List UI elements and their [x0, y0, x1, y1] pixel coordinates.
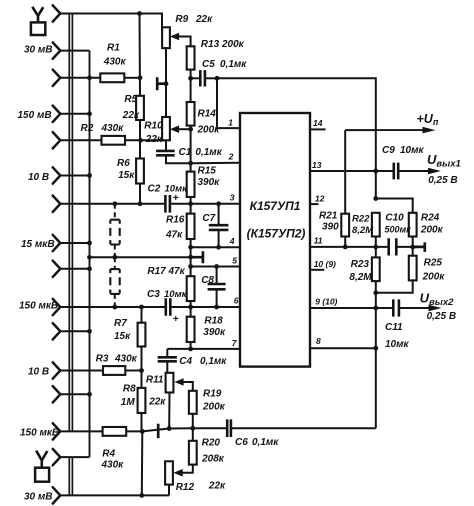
svg-text:R8: R8: [123, 384, 136, 395]
resistor R23 8.2M: [372, 257, 380, 281]
wire bottom row: [60, 494, 169, 496]
svg-text:R12: R12: [176, 482, 195, 493]
wire conn8 to bus: [60, 242, 89, 244]
svg-text:430к: 430к: [103, 57, 127, 68]
resistor R16 47k: [187, 214, 195, 239]
wire pin 1: [217, 78, 240, 128]
node bus conn11: [87, 329, 92, 334]
svg-text:150 мкВ: 150 мкВ: [20, 428, 59, 439]
svg-text:13: 13: [312, 160, 322, 170]
connector input 5: [53, 132, 61, 148]
node R1/R5: [138, 75, 143, 80]
wire R4 to node: [126, 430, 142, 432]
svg-text:430к: 430к: [114, 354, 138, 365]
svg-text:R18: R18: [204, 316, 223, 327]
node dashed divider mid: [112, 255, 117, 260]
output Uout2 arrow: [399, 307, 432, 309]
svg-text:390к: 390к: [198, 177, 221, 188]
wire conn13 to bus: [60, 393, 89, 395]
node R15/C2/pin3: [188, 201, 193, 206]
resistor R1 430k: [100, 73, 124, 82]
wire R21 top lead: [344, 130, 346, 214]
svg-text:14: 14: [313, 118, 323, 128]
wire conn15 to bus: [60, 456, 89, 458]
wiper arrow R9: [170, 33, 179, 41]
svg-text:R5: R5: [124, 94, 137, 105]
svg-text:47к: 47к: [165, 230, 183, 241]
svg-text:R13: R13: [201, 39, 220, 50]
svg-text:10 В: 10 В: [28, 172, 49, 183]
resistor R21 390: [341, 214, 349, 237]
svg-text:R23: R23: [351, 259, 370, 270]
node R18/pin7/C4: [188, 347, 193, 352]
wire R7-R8: [141, 347, 143, 388]
svg-text:R7: R7: [114, 318, 127, 329]
svg-text:11: 11: [314, 235, 323, 245]
capacitor C8: [208, 284, 226, 289]
svg-text:390: 390: [322, 222, 339, 233]
ground chassis bar bottom row: [157, 424, 160, 439]
output Uout1 arrow: [398, 170, 431, 172]
node R3/R7/R8: [139, 368, 144, 373]
node bus conn4: [87, 111, 92, 116]
wire R5 column top: [139, 14, 142, 96]
node C7 top: [216, 201, 221, 206]
resistor R5 22k: [136, 96, 144, 120]
wire R3 to node: [125, 370, 141, 372]
wiper arrow R12: [174, 469, 183, 477]
svg-text:R22: R22: [352, 214, 370, 225]
svg-text:R21: R21: [319, 211, 338, 222]
svg-text:C4: C4: [179, 356, 192, 367]
svg-text:R16: R16: [166, 215, 185, 226]
node pin9/C11: [373, 306, 378, 311]
svg-text:30 мВ: 30 мВ: [24, 45, 53, 56]
output +Up arrow: [376, 129, 426, 131]
wire R18 bottom: [190, 342, 192, 349]
capacitor C7: [209, 225, 229, 230]
svg-text:R11: R11: [146, 374, 164, 385]
node bus mid row: [87, 255, 92, 260]
capacitor C1 0.1uF: [156, 151, 175, 155]
wire R9 wiper to R13: [177, 37, 190, 47]
svg-text:150 мВ: 150 мВ: [18, 110, 52, 121]
resistor R19 200k: [189, 391, 197, 414]
svg-text:22к: 22к: [148, 397, 166, 408]
svg-text:15к: 15к: [118, 170, 135, 181]
wire mid row to ground: [90, 256, 203, 258]
node R11 bottom / ground row: [167, 426, 172, 431]
node ground tap: [164, 81, 169, 86]
node C8 top: [214, 264, 219, 269]
resistor R divider (dashed) 2: [110, 269, 119, 294]
svg-text:C9: C9: [382, 145, 395, 156]
wire pin 2: [191, 162, 240, 164]
wire R14-R15: [190, 126, 192, 172]
wire +Up link: [345, 129, 376, 131]
svg-text:R9: R9: [175, 14, 188, 25]
resistor R22 8.2M: [372, 213, 380, 237]
svg-text:C6: C6: [235, 437, 248, 448]
connector input 8 (15 uV): [53, 235, 61, 251]
svg-text:C2: C2: [148, 183, 161, 194]
svg-text:R6: R6: [117, 158, 130, 169]
svg-text:4: 4: [229, 236, 235, 246]
svg-text:208к: 208к: [201, 454, 225, 465]
node top rail split: [373, 196, 378, 201]
node bus conn8: [87, 241, 92, 246]
svg-text:5: 5: [232, 255, 237, 265]
svg-text:R20: R20: [202, 438, 221, 449]
wire conn14 to R4: [60, 430, 102, 432]
wire C4 to R11: [166, 361, 168, 373]
resistor R15 390k: [187, 172, 195, 197]
svg-text:22к: 22к: [145, 134, 163, 145]
svg-text:200к: 200к: [202, 402, 226, 413]
svg-text:C5: C5: [202, 59, 215, 70]
wire R10 to C1: [165, 140, 167, 151]
node dashed divider top: [112, 201, 117, 206]
connector input 2 (30 mV): [53, 42, 61, 58]
connector input 14 (150 uV): [53, 423, 61, 439]
svg-text:C3: C3: [147, 289, 160, 300]
node mid row: [188, 255, 193, 260]
svg-text:R24: R24: [421, 213, 440, 224]
wire R1 to node: [124, 77, 140, 79]
wire R16-R17: [190, 239, 192, 276]
wire R12 wiper to R20: [181, 465, 193, 473]
wire C1 to R15 node: [166, 155, 191, 163]
svg-text:R17: R17: [147, 266, 166, 277]
wire C7 top lead: [218, 204, 220, 225]
svg-text:R25: R25: [424, 258, 443, 269]
svg-text:1М: 1М: [121, 397, 136, 408]
svg-text:R14: R14: [198, 109, 217, 120]
svg-text:390к: 390к: [203, 327, 226, 338]
node pin8/right rail: [373, 346, 378, 351]
wire C8 bottom lead: [216, 289, 218, 307]
wire dashed lead: [114, 294, 116, 307]
capacitor C4 0.1uF: [158, 357, 177, 361]
svg-text:2: 2: [228, 152, 234, 162]
svg-text:0,1мк: 0,1мк: [220, 59, 247, 70]
svg-text:22к: 22к: [195, 14, 213, 25]
wire conn11 to bus: [60, 330, 89, 332]
svg-text:3: 3: [230, 193, 235, 203]
connector input 7: [53, 196, 61, 212]
resistor R3 430k: [103, 366, 125, 375]
node bus conn13: [87, 392, 92, 397]
resistor R17 47k: [187, 276, 195, 301]
capacitor C3 10uF electrolytic: [166, 298, 171, 316]
svg-text:C8: C8: [201, 275, 214, 286]
node R4/R8 bottom: [140, 429, 145, 434]
connector input 9: [53, 261, 61, 277]
resistor R12 22k potentiometer: [165, 461, 173, 484]
wire conn2 to bus: [60, 50, 89, 52]
svg-text:0,25 В: 0,25 В: [427, 311, 456, 322]
node bus/R1 row: [87, 75, 92, 80]
wire C3 to node: [170, 306, 190, 308]
wire R6 to C2 row: [139, 184, 141, 204]
wire R19-R20: [192, 414, 194, 441]
wiper arrow R10: [170, 125, 179, 133]
bus vertical wire: [89, 51, 91, 458]
resistor R6 15k: [136, 159, 144, 184]
svg-text:8,2М: 8,2М: [349, 272, 372, 283]
node bus conn9: [87, 266, 92, 271]
resistor R9 22k potentiometer: [162, 27, 170, 48]
wire R24-R25: [412, 237, 414, 256]
svg-text:R15: R15: [198, 166, 217, 177]
svg-text:10 В: 10 В: [28, 367, 49, 378]
resistor R4 430k: [103, 427, 127, 436]
svg-text:15 мкВ: 15 мкВ: [21, 239, 55, 250]
svg-text:430к: 430к: [101, 123, 125, 134]
wire conn4 to bus: [60, 113, 89, 115]
svg-text:+: +: [173, 192, 179, 204]
svg-text:10мк: 10мк: [164, 289, 188, 300]
capacitor C5 0.1uF: [200, 70, 205, 86]
resistor R14 200k: [187, 102, 195, 126]
wire R17-R18: [190, 301, 192, 317]
wire R13-R14: [190, 70, 192, 102]
ground right rail: [413, 242, 425, 252]
wire conn3 to R1: [60, 77, 100, 79]
node R2/R5/R6: [138, 138, 143, 143]
node dashed divider bottom: [112, 305, 117, 310]
node R16/pin4: [188, 245, 193, 250]
wire dashed lead: [114, 245, 116, 258]
svg-text:R3: R3: [96, 354, 109, 365]
svg-text:R1: R1: [107, 42, 120, 53]
capacitor C10 500uF: [389, 238, 397, 255]
node C5/pin1/top rail: [215, 76, 220, 81]
wire pin 4: [191, 246, 240, 248]
wire R23 bottom to pin9 row: [375, 281, 377, 308]
wire pin 3: [191, 203, 240, 205]
wire R15-R16: [190, 197, 192, 214]
wire to R24 top: [376, 199, 413, 213]
resistor R20 200k: [189, 441, 197, 465]
wire R9 to R10: [165, 48, 167, 117]
wire top rail C5 to right column: [217, 78, 376, 198]
wiper arrow R11: [174, 378, 183, 386]
wire pin 6: [191, 306, 240, 308]
capacitor C11 10uF: [393, 299, 399, 316]
resistor R10 22k potentiometer: [162, 117, 170, 140]
wire R2 to R10 lead: [125, 139, 166, 141]
shielded line (double vertical): [69, 14, 72, 496]
svg-text:6: 6: [234, 296, 239, 306]
wire R21 bottom: [344, 237, 346, 247]
wire dashed lead: [114, 257, 116, 269]
svg-text:500мк: 500мк: [385, 225, 412, 235]
svg-text:R2: R2: [81, 123, 94, 134]
svg-text:22к: 22к: [122, 110, 140, 121]
svg-text:0,25 В: 0,25 В: [428, 175, 457, 186]
svg-text:R10: R10: [144, 120, 163, 131]
resistor R2 430k: [102, 136, 126, 145]
svg-text:430к: 430к: [101, 460, 125, 471]
svg-text:С11: С11: [385, 322, 403, 333]
svg-text:0,1мк: 0,1мк: [195, 147, 222, 158]
node C1/R15/pin2: [188, 161, 193, 166]
wire R12 bottom lead: [168, 485, 170, 496]
resistor R11 22k potentiometer: [166, 373, 174, 393]
wire pin 11 rail: [310, 246, 389, 248]
wire C10 to R24 node: [396, 246, 412, 248]
svg-text:+: +: [173, 313, 179, 325]
wire pin 14 stub: [310, 128, 326, 130]
wire R11 wiper to R19: [182, 382, 193, 391]
node R23/R25 bottoms: [373, 290, 378, 295]
capacitor C2 10uF electrolytic: [165, 195, 170, 213]
svg-text:15к: 15к: [114, 331, 131, 342]
svg-text:(К157УП2): (К157УП2): [247, 227, 306, 241]
wire conn9 to bus: [60, 268, 89, 270]
op-amp IC U1 K157UP1: [240, 113, 310, 367]
wire pin 10(9) stub: [310, 269, 324, 271]
wire dashed lead: [114, 204, 116, 220]
node R7 top: [139, 305, 144, 310]
wire conn10 row to C3: [60, 306, 166, 308]
node C8 bottom: [214, 305, 219, 310]
node C7 bottom: [216, 245, 221, 250]
wire R10 wiper to node: [177, 128, 190, 130]
svg-text:0,1мк: 0,1мк: [200, 356, 227, 367]
node R19/R20/ground row: [190, 426, 195, 431]
svg-text:8: 8: [316, 336, 321, 346]
connector input 4 (150 mV): [53, 106, 61, 122]
wire conn12 to R3: [60, 370, 103, 372]
wire R11 bottom lead: [168, 393, 170, 429]
wire R7 top lead: [141, 307, 143, 323]
node R21/pin11: [343, 245, 348, 250]
connector input 6 (10 V): [53, 167, 61, 183]
svg-text:К157УП1: К157УП1: [250, 199, 301, 213]
node R13/R14/C5: [188, 76, 193, 81]
svg-text:47к: 47к: [168, 266, 186, 277]
wire C6 to right rail: [231, 427, 376, 429]
wire C7 bottom lead: [218, 230, 220, 247]
node R17/C3/pin6: [188, 305, 193, 310]
svg-text:0,1мк: 0,1мк: [252, 437, 279, 448]
connector input 1 (top): [53, 5, 61, 21]
wire R25 bottom link: [376, 280, 413, 292]
capacitor C9 10uF: [394, 163, 398, 180]
resistor R divider (dashed) 1: [110, 220, 119, 245]
node R24/R25/C10: [410, 245, 415, 250]
wire conn7 row to C2: [60, 203, 165, 205]
wire R8 bottom: [141, 413, 143, 431]
wire pin 13 to C9: [310, 170, 394, 172]
svg-text:9 (10): 9 (10): [315, 297, 337, 307]
capacitor C6 0.1uF: [227, 419, 231, 437]
connector input 12 (10 V): [53, 362, 61, 378]
wire conn6 to bus: [60, 175, 89, 177]
connector input 15: [53, 449, 61, 465]
wire C4 top lead: [166, 349, 168, 357]
resistor R18 390k: [187, 317, 195, 342]
wire pin 8: [310, 347, 376, 349]
node pin5: [188, 264, 193, 269]
resistor R24 200k: [409, 213, 417, 237]
connector input 13: [53, 386, 61, 402]
wire pin 12 stub: [310, 203, 319, 205]
node bottom row / R8 column: [139, 493, 144, 498]
svg-text:200к: 200к: [221, 39, 245, 50]
wire ground row R4 to C6: [142, 428, 227, 431]
svg-text:200к: 200к: [420, 225, 444, 236]
node R6 bottom: [138, 201, 143, 206]
svg-text:10мк: 10мк: [400, 145, 425, 156]
connector input 16 (30 mV bottom): [53, 487, 61, 503]
resistor R25 200k: [409, 256, 417, 281]
connector input 3: [53, 70, 61, 86]
wire top row to R9: [60, 14, 162, 28]
node R14/R10 wiper: [188, 127, 193, 132]
svg-text:200к: 200к: [422, 272, 446, 283]
wire pin 5: [191, 266, 240, 268]
node pin13/C9: [373, 169, 378, 174]
wire right rail down: [375, 308, 377, 428]
resistor R7 15k: [138, 323, 146, 347]
node bus conn6: [87, 173, 92, 178]
resistor R8 1M: [138, 388, 146, 413]
ground tap mid: [191, 251, 203, 263]
wire conn5 to R2: [60, 139, 101, 141]
antenna bottom: [36, 451, 47, 468]
antenna top: [32, 7, 43, 23]
svg-text:C10: C10: [385, 213, 404, 224]
connector input 11: [53, 323, 61, 339]
svg-text:1: 1: [228, 118, 233, 128]
wire C8 top lead: [216, 267, 218, 285]
svg-text:R4: R4: [102, 448, 115, 459]
wire R5-R6: [139, 120, 141, 159]
svg-text:R19: R19: [203, 389, 222, 400]
svg-text:22к: 22к: [208, 481, 226, 492]
svg-text:30 мВ: 30 мВ: [24, 492, 53, 503]
node R22/R23/pin11: [373, 245, 378, 250]
wire pin 7: [167, 348, 240, 350]
wire R22-R23: [375, 237, 377, 258]
connector input 10 (150 uV): [53, 299, 61, 315]
wire R8 column to bottom row: [141, 431, 144, 495]
svg-text:10мк: 10мк: [385, 339, 410, 350]
svg-text:12: 12: [315, 193, 325, 203]
wire C2 to node: [170, 203, 191, 205]
wire pin 9(10) to C11: [310, 307, 393, 309]
svg-text:C7: C7: [202, 213, 215, 224]
node top row / R5 column: [137, 11, 142, 16]
resistor R13 200k: [187, 46, 195, 69]
svg-text:10 (9): 10 (9): [314, 259, 336, 269]
ground tap at R9 lead: [157, 77, 166, 90]
svg-text:150 мкВ: 150 мкВ: [19, 301, 58, 312]
svg-text:8,2М: 8,2М: [352, 225, 374, 236]
wire node to C5: [191, 77, 201, 79]
wire C5 to pin1 column: [205, 77, 217, 79]
